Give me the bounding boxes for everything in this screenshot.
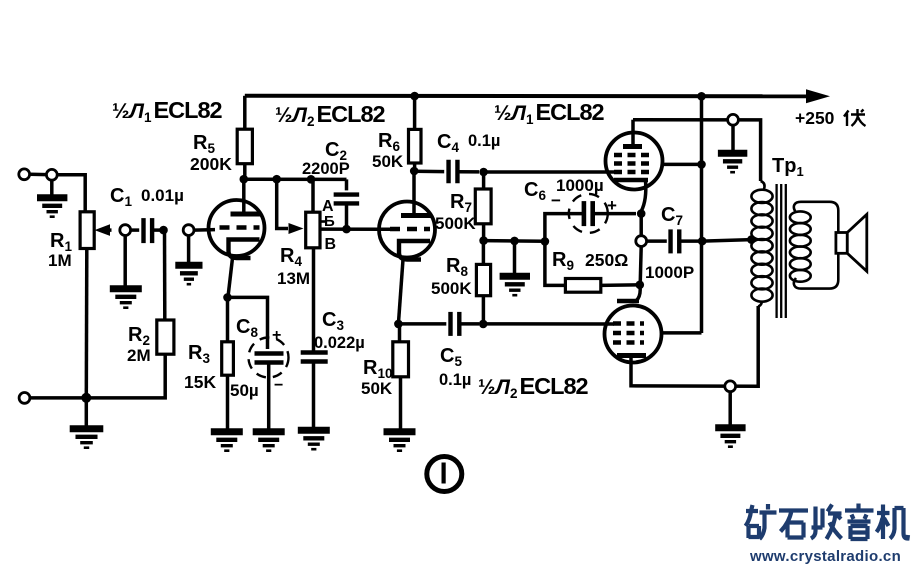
wire	[194, 228, 215, 232]
node: C1/R2 junction	[159, 226, 168, 235]
wire	[639, 214, 643, 236]
ground	[85, 398, 89, 428]
ground	[728, 392, 732, 427]
label: 伏 (volts) glyph	[844, 109, 866, 126]
wire anode V4	[631, 306, 758, 386]
svg-text:½Л1ECL82: ½Л1ECL82	[494, 99, 605, 127]
node R7/R8	[479, 236, 488, 245]
wire cathode V1	[228, 258, 233, 297]
wire OPT centre tap	[702, 240, 751, 242]
node C5/R8	[479, 320, 488, 329]
svg-text:½Л1ECL82: ½Л1ECL82	[112, 97, 223, 125]
wire	[163, 230, 167, 320]
triode V2 (1/2 L2 ECL82)	[379, 202, 435, 258]
wire B+ drop	[700, 96, 704, 333]
svg-text:15K: 15K	[184, 372, 216, 392]
svg-text:50K: 50K	[372, 152, 404, 171]
svg-text:2200P: 2200P	[302, 160, 350, 178]
resistor R3	[226, 297, 230, 341]
potentiometer R1	[80, 212, 94, 249]
terminal	[725, 381, 736, 392]
ground	[211, 432, 243, 451]
node	[81, 393, 91, 403]
node	[240, 175, 249, 184]
wire to R4 wiper	[277, 179, 288, 228]
svg-text:50µ: 50µ	[230, 381, 259, 400]
svg-text:1000µ: 1000µ	[556, 176, 604, 195]
svg-text:1M: 1M	[48, 251, 72, 270]
capacitor C3	[301, 353, 328, 362]
triode V1 (1/2 L1 ECL82)	[209, 200, 265, 256]
wire screen V3	[662, 163, 702, 167]
svg-text:0.1µ: 0.1µ	[439, 371, 471, 389]
wire anode V1	[242, 179, 246, 214]
node C4/R7	[479, 168, 488, 177]
transformer Tp1 secondary	[790, 202, 838, 289]
node V2 cathode / R10	[394, 320, 403, 329]
watermark logo text	[746, 504, 909, 540]
wire cathode V4	[636, 285, 640, 301]
wire screen V4	[661, 331, 702, 335]
terminal	[120, 225, 131, 236]
resistor R5	[237, 129, 252, 164]
capacitor C4	[414, 170, 444, 174]
resistor R8	[482, 241, 486, 265]
svg-text:200K: 200K	[190, 154, 232, 174]
wire grid bus V3	[484, 170, 617, 174]
node	[510, 237, 519, 246]
svg-text:−: −	[274, 377, 283, 394]
capacitor C6 (electrolytic 1000u)	[569, 194, 608, 233]
wire	[85, 249, 89, 398]
node	[697, 92, 706, 101]
node	[342, 225, 351, 234]
ground	[50, 180, 54, 197]
wire plate bus V1	[244, 177, 347, 181]
terminal	[728, 114, 739, 125]
ground	[253, 432, 285, 451]
transformer core	[777, 184, 786, 318]
potentiometer R4	[311, 179, 315, 212]
node screen V3	[697, 160, 706, 169]
wire	[30, 173, 47, 177]
input terminal J3	[19, 393, 30, 404]
svg-text:+: +	[272, 327, 281, 344]
node R6/C4/anode	[410, 167, 419, 176]
wire cathode V2	[398, 260, 403, 324]
terminal C7 left	[636, 236, 647, 247]
svg-text:250Ω: 250Ω	[585, 250, 628, 270]
capacitor C8 (electrolytic 50u)	[249, 338, 289, 378]
figure number I	[427, 457, 462, 492]
svg-text:500K: 500K	[435, 214, 476, 233]
node	[307, 175, 316, 184]
wire grid bus V4	[483, 322, 614, 326]
terminal	[183, 225, 194, 236]
wire anode V2	[412, 171, 416, 216]
svg-text:1000P: 1000P	[645, 263, 694, 282]
wire	[484, 239, 545, 243]
wire	[398, 322, 446, 326]
resistor R9	[545, 241, 566, 285]
input terminal J2	[46, 169, 57, 180]
svg-text:500K: 500K	[431, 279, 472, 298]
speaker	[836, 233, 847, 254]
wire cathode V3	[641, 181, 646, 212]
node V3 cathode / C6	[637, 209, 646, 218]
node V1 cathode / R3	[223, 293, 232, 302]
resistor R2	[157, 320, 174, 354]
resistor R7	[482, 172, 486, 189]
wire V3 anode to transformer	[633, 120, 761, 181]
input terminal J1	[19, 169, 30, 180]
capacitor C1	[131, 228, 140, 232]
ground	[298, 430, 330, 449]
node	[747, 235, 756, 244]
ground	[187, 236, 191, 265]
arrow +250V	[806, 89, 830, 103]
svg-text:50K: 50K	[361, 379, 393, 398]
node	[272, 175, 281, 184]
wire anode V3	[631, 120, 635, 146]
svg-text:www.crystalradio.cn: www.crystalradio.cn	[749, 548, 901, 565]
wire	[57, 175, 85, 212]
node R9 / V4 cathode	[636, 281, 645, 290]
ground	[731, 125, 735, 152]
capacitor C7	[647, 239, 667, 243]
capacitor C2	[345, 179, 349, 190]
svg-text:2M: 2M	[127, 346, 151, 365]
ground	[513, 241, 517, 276]
svg-text:0.01µ: 0.01µ	[141, 186, 184, 205]
ground	[123, 236, 127, 289]
wire	[228, 297, 268, 349]
pentode V3 (1/2 L1 ECL82 output)	[606, 133, 663, 190]
node C7 right / B+	[698, 237, 707, 246]
ground	[384, 432, 416, 451]
pentode V4 (1/2 L2 ECL82 output)	[605, 306, 662, 363]
svg-text:0.1µ: 0.1µ	[468, 132, 500, 150]
svg-text:13M: 13M	[277, 269, 310, 288]
wire grid bus V2	[320, 227, 392, 231]
wire B+ rail	[245, 94, 812, 99]
svg-text:½Л2ECL82: ½Л2ECL82	[478, 373, 589, 401]
svg-text:+250: +250	[795, 108, 835, 128]
svg-text:+: +	[607, 196, 617, 215]
svg-text:В: В	[325, 236, 337, 253]
svg-text:0.022µ: 0.022µ	[314, 334, 365, 352]
arrow R4 wiper	[289, 223, 304, 234]
resistor R10	[398, 324, 402, 342]
svg-text:½Л2ECL82: ½Л2ECL82	[275, 101, 386, 129]
resistor R6	[409, 129, 422, 163]
node C6/R9 left	[541, 237, 550, 246]
wire	[640, 247, 641, 285]
transformer Tp1 primary	[751, 181, 772, 307]
node rail/R6	[410, 92, 419, 101]
capacitor C5	[451, 312, 460, 336]
